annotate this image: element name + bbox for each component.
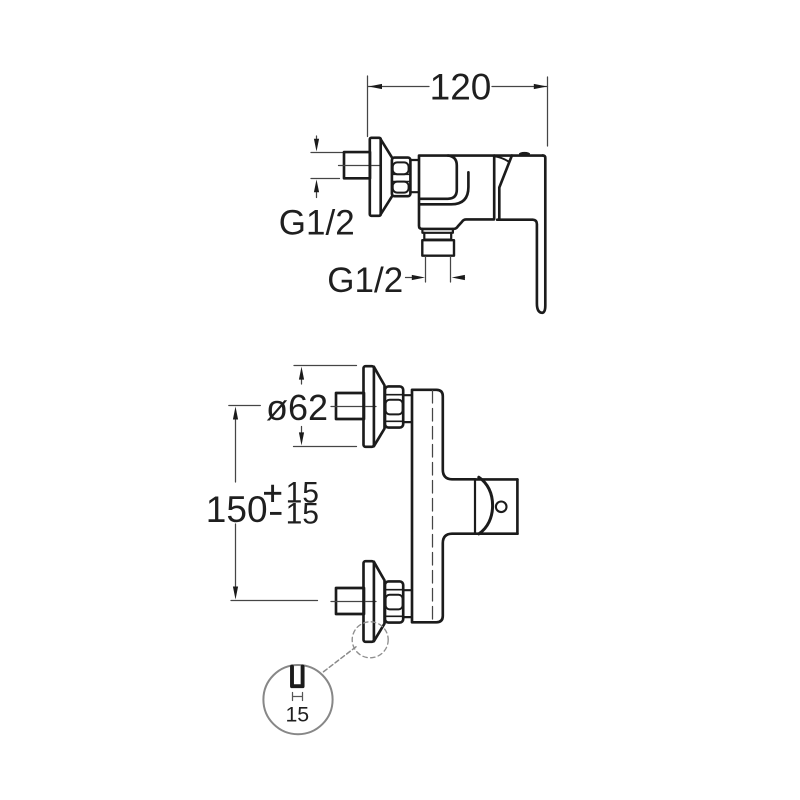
dimension 120 line left segment — [368, 86, 429, 88]
front view: 150 dim extension line bottom — [231, 600, 318, 602]
svg-text:15: 15 — [286, 498, 319, 531]
side view: pipe stub to body — [410, 160, 419, 192]
detail circle — [263, 665, 332, 734]
front view: top inlet pipe stub — [403, 395, 412, 422]
side view: valve body outline — [419, 156, 543, 229]
front view: dia62 extension line top — [294, 365, 357, 367]
front view: 150 dim arrowhead up — [233, 407, 238, 420]
front view: dia62 bottom arrow shaft — [301, 427, 303, 434]
side view: escutcheon dome arc — [494, 156, 509, 162]
side view: wall flange plate — [370, 138, 381, 216]
front view: top inlet centerline — [331, 406, 376, 408]
G1/2 top: lower arrow shaft — [316, 190, 318, 198]
svg-text:15: 15 — [285, 703, 309, 727]
front view: top inlet flange plate — [364, 366, 374, 447]
front view: top inlet nipple — [336, 393, 364, 419]
side view: handle sloped face — [499, 156, 512, 220]
detail: wall bracket U symbol — [292, 667, 303, 687]
side view: body-handle divider — [493, 156, 496, 219]
front view: dia62 bottom arrowhead pointing down — [299, 432, 304, 445]
G1/2 bottom: right arrowhead — [452, 275, 465, 280]
front view: top inlet nut outer — [385, 386, 403, 427]
front view: dia62 top arrow shaft — [301, 378, 303, 384]
svg-text:G1/2: G1/2 — [279, 203, 355, 242]
front view: top inlet flange cone — [374, 367, 385, 446]
front view: handle right edge — [516, 479, 519, 533]
detail leader dashed line — [322, 647, 357, 674]
front view: handle bottom edge — [475, 532, 517, 535]
front view: handle plate edge — [474, 479, 476, 534]
front view: dia62 extension line bottom — [294, 446, 357, 448]
side view: inlet centerline — [339, 165, 381, 167]
G1/2 top: extension line lower — [311, 178, 340, 180]
front view: 150 dim line lower segment — [235, 524, 237, 588]
svg-text:ø62: ø62 — [266, 387, 328, 428]
side view: outlet end nut — [422, 240, 454, 256]
front view: handle screw hole — [496, 502, 507, 513]
front view: 150 dim arrowhead down — [233, 587, 238, 600]
front view: 150 dim line upper segment — [235, 418, 237, 482]
G1/2 bottom: right arrow shaft — [462, 277, 465, 279]
side view: outlet neck — [422, 229, 453, 233]
front view: -15 tolerance label minus sign — [270, 512, 282, 515]
side view: waterway J-line — [419, 172, 468, 204]
G1/2 bottom: left arrow shaft — [406, 277, 415, 279]
side view: nut facet upper — [393, 162, 409, 174]
front view: top inlet nut middle facet — [386, 400, 403, 415]
G1/2 bottom: extension line right — [450, 257, 452, 283]
dimension 120 right extension line — [547, 77, 549, 146]
detail: 15 dim ticks and line — [293, 693, 303, 701]
side view: outlet collar — [424, 233, 451, 240]
G1/2 bottom: extension line left — [425, 257, 427, 283]
dimension 120 line right segment — [492, 86, 548, 88]
detail reference dashed circle — [352, 622, 388, 658]
side view: connection nut outer — [392, 158, 411, 197]
front view: +15 tolerance label plus sign — [264, 485, 281, 502]
front view: body slab — [412, 390, 475, 623]
front view: handle dome arc — [479, 477, 493, 534]
side view: nut band lines — [392, 174, 410, 181]
svg-text:120: 120 — [430, 66, 492, 107]
G1/2 top: extension line upper — [311, 152, 343, 154]
svg-text:150: 150 — [206, 489, 268, 530]
front view: 150 dim extension line top — [229, 405, 260, 407]
front view: bottom inlet group — [331, 561, 412, 642]
dimension 120 left extension line — [367, 76, 369, 137]
side view: cartridge cover D-shape — [419, 156, 456, 199]
dimension 120 arrowhead left — [369, 84, 382, 89]
front view: top inlet nut facet lines — [385, 395, 403, 422]
side view: nut facet lower — [393, 182, 409, 193]
side view: inlet nipple — [344, 152, 370, 178]
side view: handle lever — [497, 155, 545, 312]
front view: top inlet group — [331, 366, 412, 447]
G1/2 top: lower arrowhead pointing up — [314, 180, 319, 193]
G1/2 bottom: left arrowhead — [412, 275, 425, 280]
svg-text:G1/2: G1/2 — [327, 261, 403, 300]
front view: body dashed centerline — [432, 391, 434, 622]
front view: handle top edge — [475, 478, 517, 481]
G1/2 top: upper arrow shaft — [316, 136, 318, 143]
side view: handle pivot pin — [519, 152, 530, 156]
side view: flange cone — [381, 139, 392, 214]
G1/2 top: upper arrowhead pointing down — [314, 139, 319, 152]
front view: dia62 top arrowhead pointing up — [299, 367, 304, 380]
dimension 120 arrowhead right — [534, 84, 547, 89]
